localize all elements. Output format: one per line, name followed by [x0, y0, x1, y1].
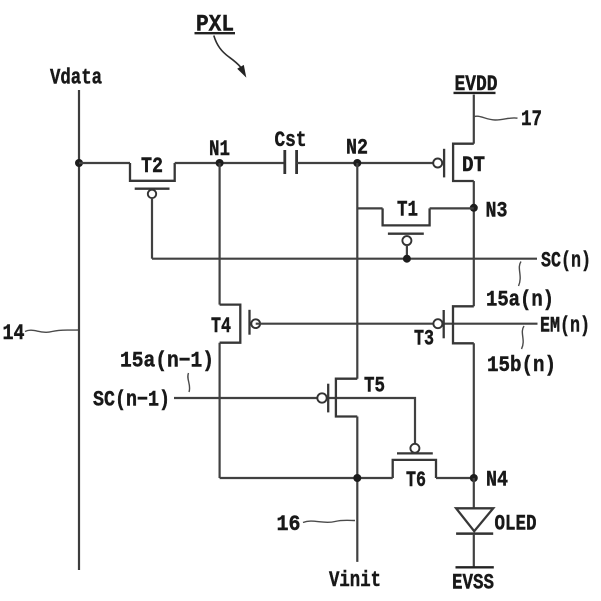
- svg-text:T3: T3: [414, 327, 434, 352]
- leader squiggle 15b(n): [522, 326, 525, 349]
- transistor T1 gate bar: [388, 233, 424, 235]
- leader squiggle 17: [474, 116, 518, 120]
- wire DT drain to N3: [473, 181, 475, 306]
- wire Vdata to T2 source: [79, 162, 130, 164]
- svg-text:15a(n): 15a(n): [486, 288, 554, 313]
- svg-text:16: 16: [277, 512, 301, 537]
- transistor T6 channel: [393, 460, 436, 478]
- transistor T1 channel: [383, 208, 430, 225]
- svg-text:T6: T6: [406, 468, 426, 493]
- svg-text:T1: T1: [397, 198, 418, 223]
- node N1 junction: [216, 159, 224, 167]
- svg-text:T5: T5: [364, 374, 385, 399]
- svg-text:N2: N2: [346, 136, 368, 161]
- transistor T3 channel: [453, 306, 474, 343]
- leader squiggle 15a(n): [519, 262, 522, 287]
- svg-text:15b(n): 15b(n): [487, 353, 556, 378]
- diode OLED triangle: [456, 508, 493, 531]
- wire SC(n-1) to T5/T6 gates: [174, 398, 415, 444]
- svg-text:T2: T2: [141, 154, 163, 179]
- wire bottom row N1 to T6: [220, 477, 393, 479]
- wire SC(n) row line: [152, 258, 537, 260]
- wire EVDD to DT source (17): [473, 95, 475, 144]
- svg-text:SC(n−1): SC(n−1): [93, 388, 170, 413]
- label PXL: [195, 12, 236, 38]
- transistor T2 gate bar: [135, 188, 170, 190]
- wire N1 column lower: [219, 343, 221, 478]
- wire OLED cathode to EVSS: [473, 534, 475, 568]
- transistor T5 gate bar: [327, 384, 329, 413]
- svg-text:SC(n): SC(n): [541, 249, 591, 274]
- svg-text:14: 14: [3, 321, 25, 346]
- transistor T4 gate bar: [248, 310, 250, 335]
- wire T2 drain to N1 to Cst: [175, 162, 285, 164]
- transistor T5 channel: [336, 379, 357, 417]
- diode OLED cathode bar: [456, 532, 493, 535]
- transistor T2 gate circle: [148, 190, 156, 198]
- transistor T6 gate bar: [397, 452, 433, 454]
- power EVDD terminal: [454, 72, 498, 97]
- leader arrow from PXL: [214, 36, 247, 78]
- transistor T4 channel: [220, 305, 241, 343]
- svg-text:EVSS: EVSS: [452, 571, 494, 596]
- transistor T6 gate circle: [410, 444, 419, 453]
- svg-text:T4: T4: [211, 314, 231, 339]
- svg-text:Cst: Cst: [275, 128, 307, 153]
- transistor T4 gate circle: [251, 319, 260, 328]
- node junction Vdata/T2: [75, 159, 83, 167]
- leader squiggle 15a(n-1): [188, 373, 190, 392]
- svg-text:Vdata: Vdata: [50, 66, 102, 91]
- node junction N2/Vinit on bottom row: [353, 474, 361, 482]
- wire T3 drain to N4: [473, 343, 475, 478]
- svg-text:Vinit: Vinit: [329, 568, 381, 593]
- svg-text:N4: N4: [486, 468, 508, 493]
- power EVSS terminal: [452, 567, 494, 595]
- wire N1 column upper: [219, 163, 221, 305]
- svg-text:EM(n): EM(n): [540, 314, 590, 339]
- svg-text:17: 17: [521, 107, 542, 132]
- transistor T1 gate circle: [402, 236, 411, 245]
- wire T1 gate to SC(n): [406, 245, 408, 259]
- node N3 junction: [470, 204, 478, 212]
- leader squiggle 14: [25, 330, 78, 332]
- leader squiggle 16: [303, 520, 355, 522]
- transistor T3 gate bar: [443, 310, 445, 338]
- node junction T1 gate on SC(n): [403, 255, 411, 263]
- transistor T5 gate circle: [317, 393, 326, 402]
- wire T2 gate to SC(n): [151, 198, 153, 259]
- capacitor Cst plate 1: [283, 150, 286, 174]
- wire EM(n) row line: [256, 323, 538, 325]
- wire N2 to T1 source: [357, 207, 382, 209]
- node N2 junction: [353, 159, 361, 167]
- wire T6 to N4: [436, 477, 474, 479]
- svg-text:DT: DT: [462, 153, 485, 178]
- transistor DT gate bar: [443, 149, 445, 178]
- wire Vdata bus (14): [78, 90, 80, 570]
- wire N4 to OLED anode: [473, 478, 475, 508]
- transistor DT gate circle: [433, 159, 442, 168]
- node N4 junction: [470, 474, 478, 482]
- wire T1 drain to N3: [430, 207, 474, 209]
- transistor DT channel: [453, 144, 474, 181]
- svg-text:15a(n−1): 15a(n−1): [120, 349, 214, 374]
- svg-text:N1: N1: [209, 137, 230, 162]
- transistor T3 gate circle: [433, 319, 442, 328]
- wire N2 column lower: [356, 417, 358, 562]
- transistor T2 channel: [130, 163, 175, 181]
- wire Cst to N2 to DT gate: [297, 162, 434, 164]
- capacitor Cst plate 2: [295, 150, 298, 174]
- svg-text:N3: N3: [486, 199, 508, 224]
- svg-text:OLED: OLED: [495, 512, 537, 537]
- wire N2 column mid: [356, 163, 358, 379]
